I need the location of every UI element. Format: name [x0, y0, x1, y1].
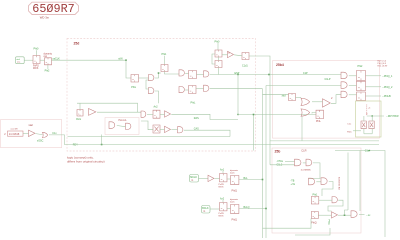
buffer L5 [165, 126, 171, 132]
io pad BCLK [202, 206, 211, 214]
svg-text:C1d1: C1d1 [242, 64, 248, 67]
wire [366, 86, 382, 88]
osc cell S2 [45, 58, 52, 65]
wire [141, 121, 153, 130]
crystal block [8, 131, 24, 136]
gate F2 [126, 123, 131, 129]
wire [347, 153, 349, 211]
svg-text:PhiQ: PhiQ [311, 222, 316, 225]
svg-text:C1LP: C1LP [325, 78, 331, 81]
box 25b [272, 148, 361, 233]
wire [239, 179, 263, 181]
wire [222, 54, 228, 56]
svg-text:65Ø9R7: 65Ø9R7 [32, 2, 74, 16]
label [33, 65, 39, 70]
wire [234, 55, 242, 56]
gate N2 [341, 82, 347, 89]
wire [303, 162, 306, 164]
arrow tip [366, 114, 367, 116]
wire [318, 214, 331, 216]
label [219, 184, 225, 189]
wire [266, 85, 341, 87]
wire CAS [184, 130, 230, 136]
wire [345, 210, 349, 215]
wire [312, 101, 323, 103]
node [253, 114, 255, 116]
svg-text:CLR: CLR [301, 149, 306, 153]
gate G2 [301, 109, 310, 116]
sub block PxL [105, 118, 139, 135]
pull-up E1 [77, 110, 83, 117]
wire [139, 77, 149, 79]
wire [227, 178, 231, 180]
svg-text:(CLMMM): (CLMMM) [301, 169, 311, 171]
wire [49, 135, 79, 145]
gate R5 [332, 197, 337, 203]
svg-text:xbd: xbd [282, 94, 287, 97]
wire [322, 182, 333, 197]
gate R1 [295, 159, 301, 166]
driver P3 [357, 92, 366, 101]
gate R4 [321, 178, 327, 185]
wire [36, 50, 38, 55]
gate R3 [309, 178, 315, 185]
wire [47, 65, 49, 69]
svg-text:RAS: RAS [194, 117, 199, 120]
wire low 1 [68, 136, 231, 138]
wire [36, 134, 43, 135]
buffer H2 [208, 175, 214, 181]
wire [349, 75, 357, 77]
svg-text:latch: latch [230, 201, 235, 204]
wire [185, 89, 188, 91]
node [262, 179, 264, 181]
wire [367, 115, 384, 117]
wire [270, 164, 295, 166]
pass fet Q1 [361, 121, 366, 129]
buffer M2 [323, 99, 331, 107]
wire [312, 113, 316, 114]
label dynamic [230, 199, 239, 204]
gate N3 [341, 91, 347, 98]
wire [371, 129, 373, 134]
clock driver S1 [33, 56, 40, 64]
wire main clock [52, 59, 127, 61]
wire [349, 94, 357, 96]
node [237, 114, 238, 115]
osc cell H7 [231, 205, 239, 214]
wire [319, 199, 332, 201]
wire [165, 72, 180, 75]
wire cross couple [155, 73, 161, 78]
flip-flop B4 [189, 71, 197, 79]
wire RAS [171, 114, 238, 119]
io pad MCLK [190, 175, 199, 183]
svg-text:WD 3m: WD 3m [40, 15, 50, 19]
latch R7 [311, 212, 318, 219]
gate D1 [149, 75, 154, 81]
svg-text:MOS: MOS [219, 187, 225, 189]
svg-text:Ax2: Ax2 [220, 197, 225, 200]
svg-text:14.31818: 14.31818 [9, 133, 20, 136]
svg-text:25b: 25b [275, 149, 281, 153]
node [101, 144, 103, 146]
node [268, 74, 270, 76]
wire [309, 163, 321, 179]
svg-text:Phi0: Phi0 [215, 40, 220, 43]
wire [196, 88, 204, 90]
svg-text:RDY: RDY [73, 143, 78, 146]
box 25d dashed [67, 39, 256, 152]
wire [97, 111, 141, 113]
wire ESP main [210, 74, 341, 76]
wire [185, 72, 188, 74]
wire [199, 178, 209, 180]
svg-text:BxLQ: BxLQ [244, 206, 250, 209]
flip-flop L2 [153, 110, 160, 118]
svg-text:xtlN: xtlN [118, 57, 122, 60]
wire low 2 [79, 143, 379, 145]
wire [164, 56, 166, 65]
wire loop [77, 103, 138, 112]
flip-flop B6 [189, 86, 196, 94]
wire top [335, 151, 385, 238]
svg-text:→PhiQ_1: →PhiQ_1 [382, 75, 393, 78]
driver P2 [357, 81, 366, 90]
gate G1 [301, 98, 310, 105]
svg-text:Phi0: Phi0 [34, 48, 39, 51]
wire [328, 200, 343, 211]
gate N1 [341, 72, 347, 79]
gate B5 [204, 71, 209, 77]
wire [359, 214, 365, 216]
gate B3 [179, 70, 184, 76]
svg-text:1x: 1x [228, 53, 230, 55]
svg-text:→PhiLB: →PhiLB [382, 95, 392, 98]
box xtal osc [1, 120, 62, 148]
latch M3 [316, 110, 323, 118]
label [219, 213, 225, 218]
wire [217, 43, 219, 50]
wire [147, 113, 153, 115]
wire [263, 94, 267, 96]
wire [217, 57, 219, 61]
wire [210, 208, 220, 210]
svg-text:+.5x: +.5x [291, 183, 296, 186]
wire [249, 56, 270, 165]
wire [263, 94, 289, 96]
label dynamic [44, 53, 53, 58]
wire bus d [265, 86, 267, 239]
svg-text:Ax2: Ax2 [154, 106, 159, 109]
svg-text:PhiL: PhiL [316, 120, 321, 123]
svg-text:differs from original circuitr: differs from original circuitry) [67, 159, 105, 163]
svg-text:xtal: xtal [29, 123, 33, 127]
svg-text:25d: 25d [74, 42, 80, 46]
wire [197, 74, 204, 76]
wire bus b [253, 115, 255, 151]
wire [79, 103, 81, 109]
wire [296, 96, 302, 98]
clock driver H3 [220, 174, 227, 182]
svg-text:PxL/xxL: PxL/xxL [119, 120, 128, 122]
wire [160, 113, 165, 115]
wire [366, 75, 382, 77]
wire [160, 129, 165, 131]
wire [171, 129, 177, 131]
svg-text:C1L2: C1L2 [277, 164, 283, 167]
wire [364, 133, 372, 135]
svg-text:ESP: ESP [235, 72, 240, 75]
node [372, 115, 373, 116]
svg-text:C1P: C1P [303, 72, 308, 75]
svg-text:Phi2: Phi2 [45, 69, 50, 72]
latch R6 [311, 197, 318, 204]
wire [363, 116, 365, 121]
io pad xtal in [16, 57, 25, 64]
gate B8 [204, 85, 209, 91]
wire [366, 95, 382, 97]
wire [222, 200, 224, 203]
osc cell C1 [215, 50, 222, 57]
gate L1 [141, 111, 146, 117]
buffer E2 [89, 109, 96, 116]
svg-text:BxL: BxL [244, 177, 249, 180]
buffer R8 [332, 212, 338, 218]
gate F1 [109, 122, 115, 129]
svg-text:PhiL: PhiL [191, 102, 196, 105]
wire [222, 171, 224, 174]
gate R2 [306, 159, 312, 166]
sub box rdy [356, 101, 382, 137]
wire bus a [237, 75, 239, 115]
wire [23, 133, 29, 135]
clock driver H6 [220, 203, 227, 211]
node [265, 208, 267, 210]
wire [295, 228, 330, 235]
wire [215, 178, 220, 180]
svg-text:PhiL: PhiL [131, 86, 136, 89]
osc cell C3 [242, 53, 249, 60]
wire [25, 59, 34, 61]
buffer V1 [29, 130, 35, 136]
svg-text:Ax1: Ax1 [220, 168, 225, 171]
wire [146, 80, 149, 89]
flip-flop B1 [131, 75, 138, 82]
svg-text:MOS: MOS [33, 68, 39, 70]
box 25b4 [273, 61, 380, 139]
latch M1 [289, 94, 296, 101]
wire [239, 208, 266, 210]
svg-text:→RDYHXW: →RDYHXW [386, 115, 400, 118]
wire [210, 88, 263, 90]
node [158, 72, 160, 74]
wire [101, 135, 103, 145]
svg-text:→xx: →xx [366, 214, 372, 217]
svg-text:latch: latch [230, 172, 235, 175]
wire [155, 91, 159, 103]
wire [217, 68, 219, 75]
wire [359, 151, 361, 212]
wire [263, 219, 312, 229]
node [125, 59, 127, 61]
gate L6 [178, 127, 183, 133]
power rail [366, 105, 368, 115]
gate R9 [351, 211, 357, 218]
xtal cell L4 [153, 125, 160, 133]
wire [331, 95, 341, 104]
svg-text:PhiQ: PhiQ [232, 189, 237, 192]
wire feedback [212, 54, 215, 64]
svg-text:PhiQ: PhiQ [232, 218, 237, 221]
gate V2 [43, 132, 48, 137]
wire [126, 60, 131, 78]
node [237, 74, 238, 75]
svg-text:RCL | 3.8V: RCL | 3.8V [378, 65, 388, 67]
wire [338, 214, 351, 216]
svg-text:B1 B2 B3 B4: B1 B2 B3 B4 [338, 177, 340, 190]
wire [363, 129, 365, 134]
svg-text:xtal: xtal [16, 58, 20, 61]
wire [285, 160, 295, 162]
svg-text:MOS: MOS [219, 216, 225, 218]
label dynamic [230, 170, 239, 175]
wire [227, 208, 231, 210]
wire [40, 59, 45, 61]
osc cell C4 [215, 61, 222, 68]
svg-text:xOSC: xOSC [37, 140, 44, 143]
svg-text:Phi1: Phi1 [162, 53, 167, 56]
svg-text:xxx 3/8: xxx 3/8 [11, 129, 19, 131]
wire [301, 117, 303, 141]
gate D2 [149, 88, 154, 94]
svg-text:RxG: RxG [76, 118, 81, 121]
wire [238, 114, 316, 116]
wire bus c [262, 89, 264, 238]
wire [316, 181, 321, 183]
osc cell H4 [231, 176, 239, 185]
gate B7 [179, 87, 184, 93]
wire [117, 126, 126, 127]
buffer L3 [165, 111, 171, 117]
wire [349, 84, 357, 86]
svg-text:CAS: CAS [194, 128, 199, 131]
note block [378, 61, 388, 68]
title frame octagon [29, 2, 79, 14]
note text [67, 156, 105, 164]
wire [371, 116, 373, 121]
svg-text:Phi1: Phi1 [313, 194, 318, 197]
svg-text:25b4: 25b4 [276, 63, 284, 67]
svg-text:PhQx: PhQx [328, 220, 330, 226]
wire mid [270, 140, 379, 142]
pass fet Q2 [369, 121, 374, 129]
svg-text:→PhiQ_2: →PhiQ_2 [382, 86, 393, 89]
driver P1 [357, 71, 366, 81]
flip-flop B2 [161, 65, 168, 72]
svg-text:Phi2: Phi2 [358, 65, 363, 68]
wire [353, 130, 361, 132]
buffer C2 [228, 51, 234, 57]
node [344, 214, 346, 216]
